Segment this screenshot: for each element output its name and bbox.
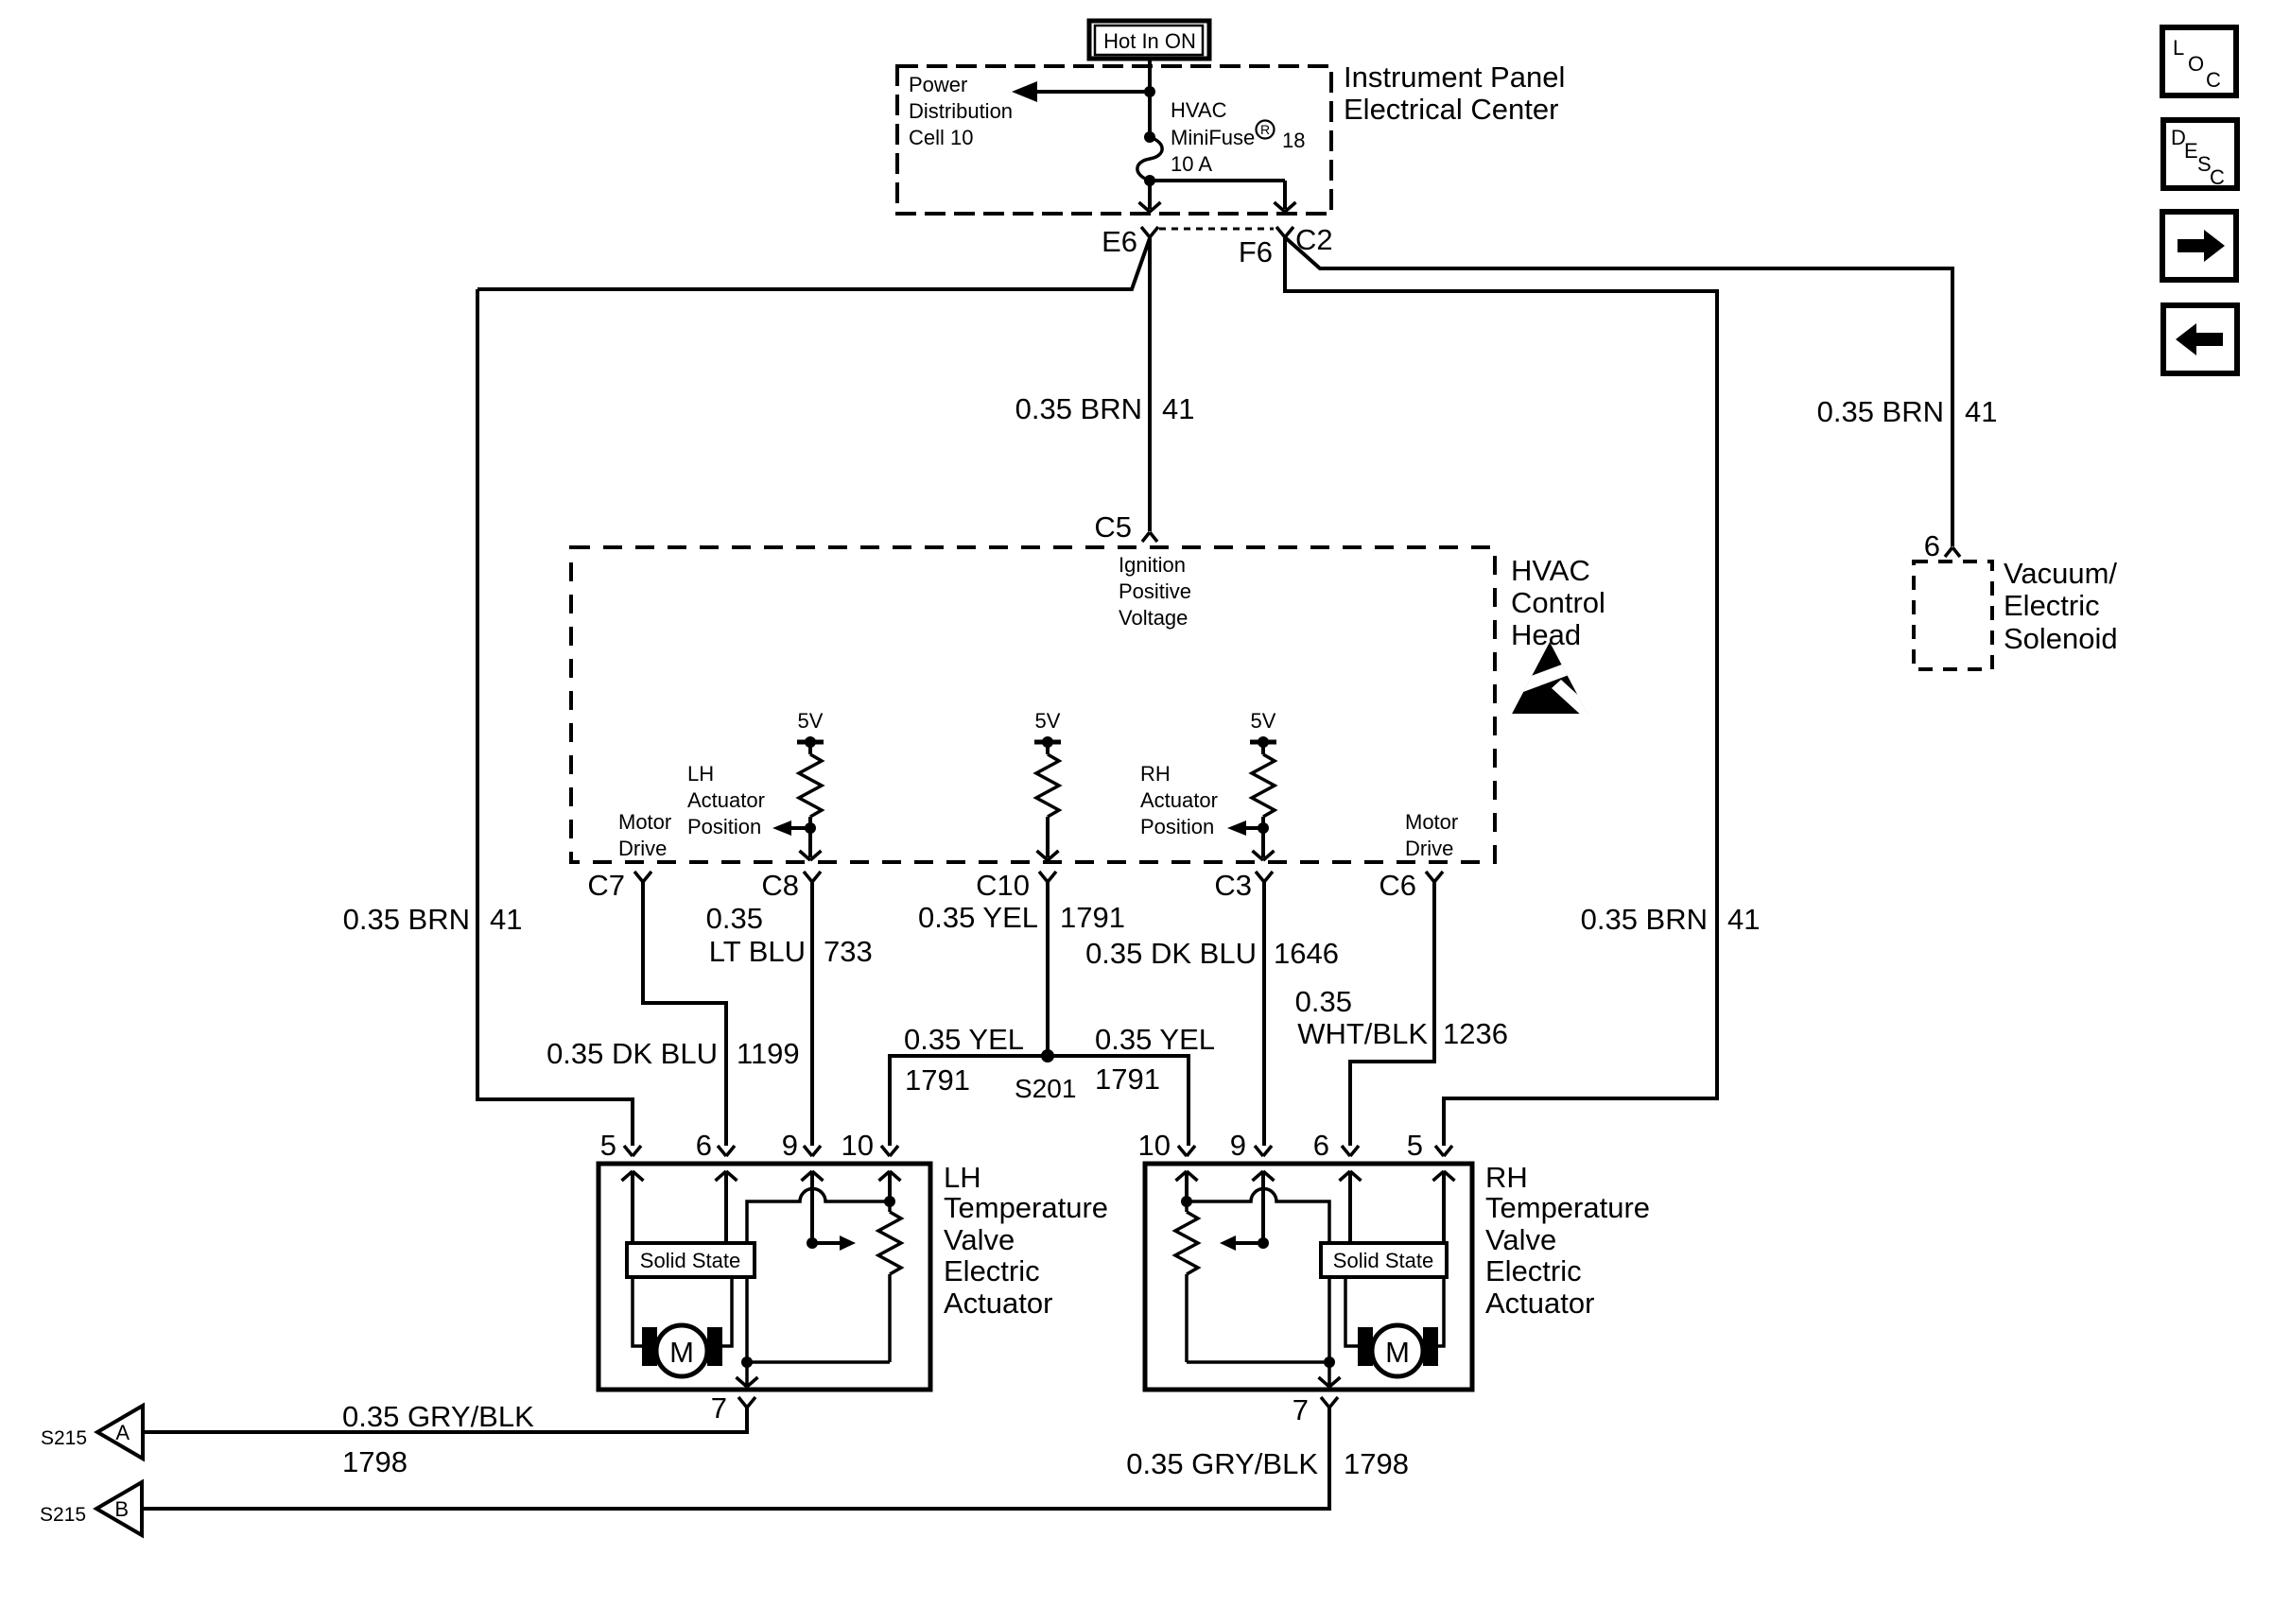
svg-text:M: M xyxy=(1385,1336,1410,1369)
svg-text:Electric: Electric xyxy=(2004,589,2100,622)
wire resistor bottom to junction xyxy=(747,1360,890,1364)
svg-text:7: 7 xyxy=(711,1391,727,1425)
svg-text:C8: C8 xyxy=(761,869,799,902)
svg-text:Position: Position xyxy=(1140,815,1214,838)
5V supply RH xyxy=(1250,709,1276,754)
pin 6 of solenoid xyxy=(1945,547,1960,557)
svg-text:RH: RH xyxy=(1140,762,1171,786)
svg-text:1791: 1791 xyxy=(1060,901,1125,934)
wire arrow LH Actuator Position xyxy=(772,821,810,836)
wire from Hot In ON into fuse xyxy=(1148,59,1152,137)
svg-text:Control: Control xyxy=(1511,586,1605,619)
svg-text:10 A: 10 A xyxy=(1171,152,1212,176)
svg-text:6: 6 xyxy=(696,1129,712,1162)
svg-text:Valve: Valve xyxy=(944,1223,1015,1256)
svg-text:Temperature: Temperature xyxy=(944,1191,1108,1224)
motor M RH xyxy=(1358,1325,1438,1376)
svg-text:1646: 1646 xyxy=(1274,937,1339,970)
wire arrow to Power Distribution xyxy=(1012,81,1150,102)
DESC navigation box xyxy=(2163,120,2237,189)
node LH feedback top xyxy=(884,1196,895,1207)
Solid State module RH xyxy=(1321,1243,1447,1277)
svg-text:0.35 YEL: 0.35 YEL xyxy=(1095,1023,1215,1056)
connector interface C2 dotted line xyxy=(1159,228,1274,231)
svg-text:WHT/BLK: WHT/BLK xyxy=(1297,1017,1428,1050)
5V supply LH xyxy=(797,709,824,754)
svg-text:Voltage: Voltage xyxy=(1119,606,1188,630)
wire E6 to C5 vertical xyxy=(1148,237,1152,531)
svg-text:0.35 BRN: 0.35 BRN xyxy=(1817,395,1944,428)
node LH position sense xyxy=(805,822,816,834)
Solid State module LH xyxy=(627,1243,755,1277)
5V supply center xyxy=(1034,709,1061,754)
svg-text:1791: 1791 xyxy=(1095,1063,1160,1096)
label 0.35 BRN 41 (solenoid run) xyxy=(1817,395,1998,428)
wire LH feedback top with hop xyxy=(747,1189,890,1362)
svg-text:0.35: 0.35 xyxy=(706,902,763,935)
svg-text:6: 6 xyxy=(1313,1129,1329,1162)
connector C10 xyxy=(1039,872,1056,882)
label 0.35 GRY/BLK 1798 (B) xyxy=(1126,1447,1409,1480)
svg-text:C7: C7 xyxy=(587,869,625,902)
RH Temperature Valve Electric Actuator box xyxy=(1145,1164,1472,1390)
wire RH feedback top with hop xyxy=(1187,1189,1329,1363)
HVAC Control Head dashed box xyxy=(571,547,1495,862)
Vacuum/Electric Solenoid dashed box xyxy=(1914,561,1992,669)
svg-text:0.35 DK BLU: 0.35 DK BLU xyxy=(1085,937,1257,970)
wire S201 to RH pin 10 xyxy=(1048,1056,1189,1146)
svg-text:5V: 5V xyxy=(1035,709,1061,733)
svg-text:733: 733 xyxy=(824,935,873,968)
svg-text:Valve: Valve xyxy=(1485,1223,1556,1256)
svg-text:MiniFuse: MiniFuse xyxy=(1171,126,1255,149)
svg-text:Solid State: Solid State xyxy=(1333,1249,1433,1272)
label LH Temperature Valve Electric Actuator xyxy=(944,1161,1108,1320)
node fuse input xyxy=(1144,86,1155,97)
svg-text:5: 5 xyxy=(1407,1129,1423,1162)
wire E6 branch to left run xyxy=(477,238,1150,289)
svg-text:5V: 5V xyxy=(1251,709,1276,733)
label 0.35 YEL 1791 (right leg) xyxy=(1095,1023,1215,1096)
svg-text:41: 41 xyxy=(1162,392,1194,425)
LH actuator pin 6 xyxy=(718,1146,735,1156)
node RH position sense xyxy=(1258,822,1269,834)
label Instrument Panel Electrical Center xyxy=(1344,60,1565,126)
svg-text:Electric: Electric xyxy=(944,1254,1040,1287)
wire F6 branch to solenoid xyxy=(1285,237,1952,546)
svg-text:C6: C6 xyxy=(1379,869,1416,902)
wire fuse output to E6 xyxy=(1139,181,1161,212)
splice S215 leg B xyxy=(96,1482,142,1535)
connector C5 xyxy=(1142,532,1157,542)
connector F6 xyxy=(1276,227,1293,237)
wire RH pin10 into box xyxy=(1176,1171,1198,1201)
Instrument Panel Electrical Center dashed box xyxy=(897,66,1331,214)
resistor RH internal xyxy=(1175,1201,1198,1362)
left arrow navigation box xyxy=(2163,305,2237,373)
node RH feedback top xyxy=(1181,1196,1192,1207)
LH pin 7 xyxy=(738,1397,755,1408)
resistor LH internal xyxy=(878,1201,901,1362)
svg-text:0.35 DK BLU: 0.35 DK BLU xyxy=(547,1037,718,1070)
svg-text:0.35 YEL: 0.35 YEL xyxy=(918,901,1038,934)
svg-text:10: 10 xyxy=(842,1129,874,1162)
connector C3 xyxy=(1256,872,1273,882)
wire LH pin5 to solid state xyxy=(622,1171,644,1243)
node LH wiper xyxy=(807,1237,818,1249)
connector C6 xyxy=(1426,872,1443,882)
RH actuator pin 9 xyxy=(1255,1146,1272,1156)
right arrow navigation box xyxy=(2162,212,2236,280)
wire left vertical run to LH pin 5 xyxy=(477,289,633,1146)
svg-text:Motor: Motor xyxy=(1405,810,1458,834)
wire junction to C8 xyxy=(800,828,822,860)
splice S201 xyxy=(1041,1049,1054,1063)
svg-text:Instrument Panel: Instrument Panel xyxy=(1344,60,1565,94)
wire RH pin5 to solid state xyxy=(1433,1171,1455,1243)
svg-text:1798: 1798 xyxy=(342,1445,408,1478)
label Motor Drive (right) xyxy=(1405,810,1458,860)
svg-text:0.35: 0.35 xyxy=(1295,985,1352,1018)
wire fuse output to F6 xyxy=(1150,181,1296,212)
svg-text:Solid State: Solid State xyxy=(640,1249,740,1272)
wire C6 to RH pin 6 xyxy=(1350,882,1434,1146)
svg-text:41: 41 xyxy=(490,903,522,936)
svg-text:0.35 BRN: 0.35 BRN xyxy=(1581,903,1708,936)
label HVAC Control Head xyxy=(1511,554,1605,651)
motor M LH xyxy=(642,1325,722,1376)
label 0.35 BRN 41 (left run) xyxy=(343,903,523,936)
svg-text:0.35 GRY/BLK: 0.35 GRY/BLK xyxy=(1126,1447,1318,1480)
wire LH pin7 to S215 A xyxy=(143,1408,747,1432)
resistor LH actuator position xyxy=(799,754,822,817)
svg-text:Drive: Drive xyxy=(1405,837,1453,860)
svg-text:B: B xyxy=(114,1497,129,1521)
svg-text:41: 41 xyxy=(1727,903,1760,936)
wire junction to pin7 xyxy=(737,1362,758,1387)
svg-text:7: 7 xyxy=(1293,1393,1309,1426)
svg-text:F6: F6 xyxy=(1239,235,1273,268)
svg-text:Hot In ON: Hot In ON xyxy=(1103,29,1196,53)
splice S215 leg A xyxy=(97,1406,143,1459)
wire junction to C3 xyxy=(1253,828,1275,860)
label LH Actuator Position xyxy=(687,762,765,838)
RH actuator pin 5 xyxy=(1435,1146,1452,1156)
svg-text:1791: 1791 xyxy=(905,1063,970,1097)
RH actuator pin 6 xyxy=(1342,1146,1359,1156)
svg-text:LH: LH xyxy=(687,762,714,786)
svg-text:LT BLU: LT BLU xyxy=(709,935,806,968)
svg-text:5V: 5V xyxy=(798,709,824,733)
svg-text:C: C xyxy=(2210,165,2225,189)
wire junction to pin7 RH xyxy=(1319,1362,1341,1387)
wire LH pin6 to solid state xyxy=(716,1171,737,1243)
LH actuator pin 9 xyxy=(804,1146,821,1156)
label Motor Drive (left) xyxy=(618,810,671,860)
wire RH pin7 to S215 B xyxy=(142,1408,1329,1509)
RH pin 7 xyxy=(1321,1397,1338,1408)
svg-text:M: M xyxy=(669,1336,694,1369)
wire arrow RH Actuator Position xyxy=(1227,821,1263,836)
wire C10 to S201 xyxy=(1046,882,1050,1056)
label 0.35 DK BLU 1199 xyxy=(547,1037,800,1070)
svg-text:C3: C3 xyxy=(1214,869,1252,902)
svg-text:Cell 10: Cell 10 xyxy=(909,126,973,149)
svg-text:Positive: Positive xyxy=(1119,579,1191,603)
LH actuator pin 5 xyxy=(624,1146,641,1156)
wiper arrow RH xyxy=(1220,1235,1263,1251)
svg-text:E6: E6 xyxy=(1102,225,1137,258)
label 0.35 LT BLU 733 xyxy=(706,902,873,968)
svg-text:Drive: Drive xyxy=(618,837,667,860)
LH Temperature Valve Electric Actuator box xyxy=(599,1164,930,1390)
wiper arrow LH xyxy=(812,1235,856,1251)
connector C8 xyxy=(804,872,821,882)
wire C7 to LH pin 6 xyxy=(643,882,726,1146)
connector C7 xyxy=(634,872,651,882)
svg-text:Position: Position xyxy=(687,815,761,838)
label Ignition Positive Voltage xyxy=(1119,553,1191,630)
svg-text:O: O xyxy=(2188,52,2204,76)
svg-text:0.35 GRY/BLK: 0.35 GRY/BLK xyxy=(342,1400,534,1433)
svg-text:18: 18 xyxy=(1282,129,1305,152)
svg-text:5: 5 xyxy=(600,1129,616,1162)
svg-text:Temperature: Temperature xyxy=(1485,1191,1650,1224)
node RH wiper xyxy=(1258,1237,1269,1249)
wire LH pin10 into box xyxy=(879,1171,901,1201)
wire F6 branch to right vertical run xyxy=(1285,237,1717,1146)
svg-text:C5: C5 xyxy=(1094,510,1132,544)
svg-text:S201: S201 xyxy=(1015,1074,1076,1103)
svg-text:HVAC: HVAC xyxy=(1171,98,1227,122)
wire solid state to motor brushes RH xyxy=(1345,1277,1358,1346)
svg-text:Actuator: Actuator xyxy=(1485,1287,1594,1320)
wire resistor to junction xyxy=(1261,817,1265,828)
wire C8 to LH pin 9 xyxy=(810,882,814,1146)
label 0.35 WHT/BLK 1236 xyxy=(1295,985,1508,1050)
label Vacuum/Electric Solenoid xyxy=(2004,557,2118,655)
connector E6 xyxy=(1141,227,1158,237)
svg-text:6: 6 xyxy=(1924,529,1940,562)
label 0.35 YEL 1791 (left leg) xyxy=(904,1023,1024,1097)
svg-text:Electrical Center: Electrical Center xyxy=(1344,93,1558,126)
node RH pin7 junction xyxy=(1324,1356,1335,1368)
svg-text:Head: Head xyxy=(1511,618,1581,651)
wire LH pin9 into box xyxy=(802,1171,824,1243)
svg-text:Actuator: Actuator xyxy=(944,1287,1052,1320)
svg-text:Motor: Motor xyxy=(618,810,671,834)
fuse F18 HVAC MiniFuse 10A xyxy=(1137,131,1162,186)
svg-text:9: 9 xyxy=(1230,1129,1246,1162)
resistor center xyxy=(1036,754,1059,817)
wire S201 to LH pin 10 xyxy=(890,1056,1048,1146)
svg-text:1199: 1199 xyxy=(737,1037,800,1070)
label RH Temperature Valve Electric Actuator xyxy=(1485,1161,1650,1320)
wire C3 to RH pin 9 xyxy=(1262,882,1266,1146)
label HVAC MiniFuse 18 10 A xyxy=(1171,98,1305,176)
svg-text:Ignition: Ignition xyxy=(1119,553,1186,577)
svg-text:41: 41 xyxy=(1965,395,1997,428)
wire resistor to junction xyxy=(808,817,812,828)
label 0.35 BRN 41 (E6-C5) xyxy=(1015,392,1195,425)
svg-text:S215: S215 xyxy=(40,1504,86,1526)
svg-text:Distribution: Distribution xyxy=(909,99,1013,123)
svg-text:0.35 YEL: 0.35 YEL xyxy=(904,1023,1024,1056)
label 0.35 YEL 1791 (C10) xyxy=(918,901,1125,934)
svg-text:LH: LH xyxy=(944,1161,981,1194)
svg-text:L: L xyxy=(2173,36,2184,60)
label 0.35 GRY/BLK 1798 (A) xyxy=(342,1400,534,1478)
LH actuator pin 10 xyxy=(881,1146,898,1156)
svg-text:S215: S215 xyxy=(41,1427,87,1449)
svg-text:Actuator: Actuator xyxy=(1140,788,1218,812)
svg-text:1236: 1236 xyxy=(1443,1017,1508,1050)
RH actuator pin 10 xyxy=(1178,1146,1195,1156)
svg-text:9: 9 xyxy=(782,1129,798,1162)
ESD sensitive device symbol xyxy=(1503,642,1593,717)
wire resistor bottom to junction RH xyxy=(1187,1360,1329,1364)
LOC navigation box xyxy=(2162,27,2236,95)
wire solid state to motor brushes LH xyxy=(633,1277,642,1346)
svg-text:0.35 BRN: 0.35 BRN xyxy=(1015,392,1142,425)
label RH Actuator Position xyxy=(1140,762,1218,838)
svg-text:0.35 BRN: 0.35 BRN xyxy=(343,903,470,936)
svg-text:HVAC: HVAC xyxy=(1511,554,1590,587)
svg-text:1798: 1798 xyxy=(1344,1447,1409,1480)
svg-text:R: R xyxy=(1260,122,1270,137)
node LH pin7 junction xyxy=(741,1356,753,1368)
svg-text:C10: C10 xyxy=(976,869,1030,902)
svg-text:E: E xyxy=(2184,139,2198,163)
svg-text:Solenoid: Solenoid xyxy=(2004,622,2118,655)
wire RH pin6 to solid state xyxy=(1340,1171,1362,1243)
label 0.35 DK BLU 1646 xyxy=(1085,937,1339,970)
resistor RH actuator position xyxy=(1252,754,1275,817)
wire resistor to C10 xyxy=(1037,817,1059,860)
svg-text:C: C xyxy=(2206,68,2221,92)
label Power Distribution Cell 10 xyxy=(909,73,1013,149)
svg-text:Vacuum/: Vacuum/ xyxy=(2004,557,2117,590)
wire RH pin9 into box xyxy=(1253,1171,1275,1243)
Hot In ON supply box xyxy=(1089,21,1209,59)
svg-text:Power: Power xyxy=(909,73,967,96)
svg-text:RH: RH xyxy=(1485,1161,1528,1194)
label 0.35 BRN 41 (right run) xyxy=(1581,903,1761,936)
svg-text:Actuator: Actuator xyxy=(687,788,765,812)
svg-text:A: A xyxy=(115,1421,130,1444)
svg-text:Electric: Electric xyxy=(1485,1254,1582,1287)
svg-text:10: 10 xyxy=(1138,1129,1171,1162)
